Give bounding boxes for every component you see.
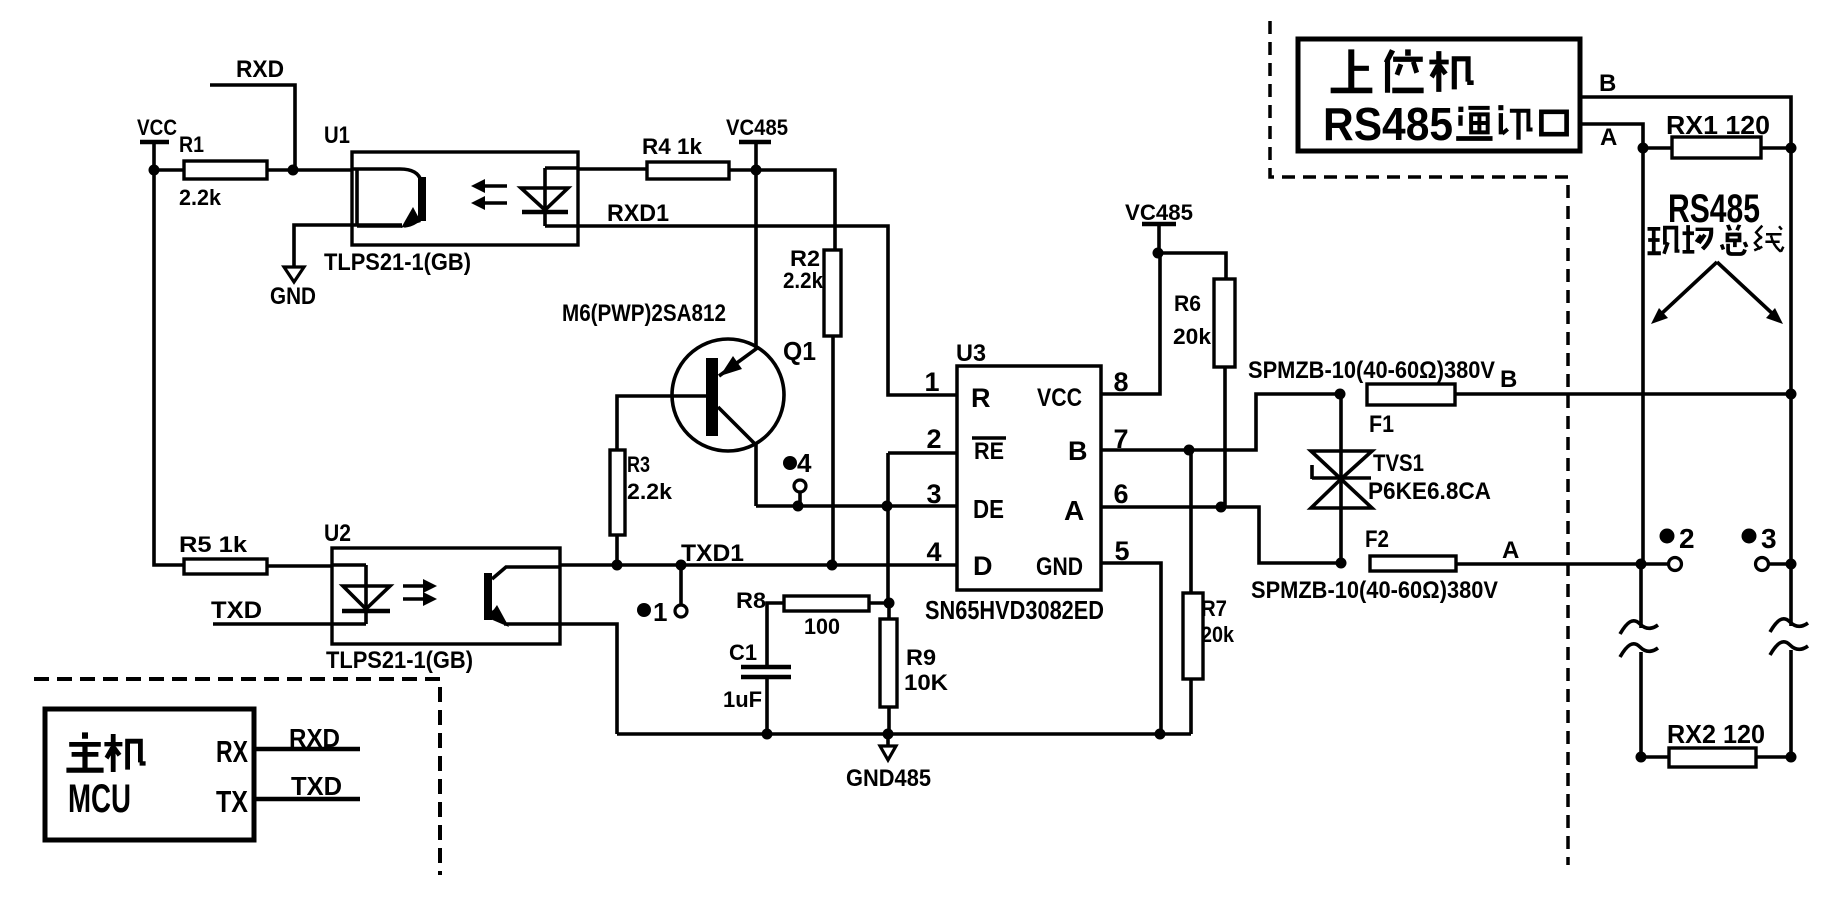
resistor R5 bbox=[179, 532, 267, 574]
diode TVS1 bbox=[1311, 394, 1491, 563]
dashed boundary host side bbox=[1270, 21, 1568, 865]
wire R5 to U2 bbox=[267, 564, 332, 568]
node R2/TXD1 junction bbox=[827, 560, 838, 571]
svg-text:B: B bbox=[1500, 366, 1517, 393]
resistor RX1 bbox=[1666, 110, 1770, 158]
wire host B out bbox=[1580, 70, 1791, 148]
node RX1 left junction bbox=[1638, 143, 1649, 154]
wire U3 pin8 to VC485 bbox=[1101, 253, 1160, 394]
svg-text:A: A bbox=[1600, 124, 1617, 151]
wire B rail to break bbox=[1789, 564, 1793, 626]
transistor Q1 bbox=[562, 170, 816, 506]
svg-text:C1: C1 bbox=[729, 640, 757, 665]
power symbol VCC bbox=[137, 115, 177, 170]
svg-text:100: 100 bbox=[804, 614, 840, 639]
svg-text:TLPS21-1(GB): TLPS21-1(GB) bbox=[324, 249, 471, 276]
node 1 terminal bbox=[637, 560, 687, 628]
svg-text:VC485: VC485 bbox=[726, 115, 788, 140]
svg-text:GND: GND bbox=[270, 283, 316, 310]
wire RX1 stubs bbox=[1643, 146, 1791, 150]
svg-text:R7: R7 bbox=[1201, 596, 1227, 621]
wire A rail to break bbox=[1639, 564, 1643, 628]
net label TXD1 and D wire bbox=[560, 540, 957, 567]
svg-text:B: B bbox=[1068, 436, 1088, 466]
svg-text:2.2k: 2.2k bbox=[627, 479, 673, 504]
svg-text:RXD1: RXD1 bbox=[607, 200, 669, 227]
bus direction arrows bbox=[1651, 262, 1783, 324]
svg-text:RE: RE bbox=[974, 438, 1004, 465]
resistor RX2 bbox=[1667, 719, 1765, 767]
wire R8 left to C1 bbox=[767, 603, 784, 667]
wire R8 right to R9 bbox=[869, 601, 889, 605]
svg-text:R6: R6 bbox=[1174, 291, 1201, 316]
svg-text:B: B bbox=[1599, 70, 1616, 97]
node RX2 right junction bbox=[1786, 752, 1797, 763]
svg-text:10K: 10K bbox=[904, 670, 948, 695]
svg-text:RXD: RXD bbox=[289, 723, 340, 753]
op-amp U1 optocoupler TLP521 bbox=[324, 122, 578, 276]
svg-text:R3: R3 bbox=[627, 452, 650, 477]
svg-text:U2: U2 bbox=[324, 520, 351, 547]
wire ground rail GND485 bbox=[617, 732, 1191, 736]
svg-text:TX: TX bbox=[216, 784, 248, 819]
net label RS485 fieldbus bbox=[1648, 187, 1783, 255]
wire R9 top stub bbox=[887, 603, 891, 619]
wire node to U1 pin bbox=[293, 168, 352, 172]
svg-text:DE: DE bbox=[973, 494, 1004, 524]
svg-text:F1: F1 bbox=[1369, 411, 1394, 438]
wire MCU TX pin bbox=[254, 771, 360, 801]
power symbol VC485 left bbox=[726, 115, 788, 170]
transistor U2 phototransistor bbox=[484, 567, 560, 627]
svg-text:M6(PWP)2SA812: M6(PWP)2SA812 bbox=[562, 300, 726, 327]
net label RXD bbox=[210, 56, 295, 170]
node R8/R9 junction bbox=[884, 598, 895, 609]
wire C1 to ground rail bbox=[765, 677, 769, 734]
op-amp U3 transceiver SN65HVD3082ED bbox=[925, 340, 1104, 625]
resistor R2 bbox=[783, 246, 841, 336]
svg-text:F2: F2 bbox=[1365, 526, 1389, 553]
svg-text:1: 1 bbox=[924, 367, 939, 397]
svg-text:Q1: Q1 bbox=[783, 336, 816, 366]
svg-text:R5 1k: R5 1k bbox=[179, 532, 248, 557]
svg-text:D: D bbox=[973, 551, 993, 581]
svg-text:2.2k: 2.2k bbox=[783, 268, 824, 293]
resistor R7 bbox=[1183, 593, 1235, 679]
diode U2 LED bbox=[332, 565, 390, 624]
wire R2 bottom to TXD1 line bbox=[831, 336, 835, 565]
node R3/TXD1 junction bbox=[612, 560, 623, 571]
node VC485 junction bbox=[751, 165, 762, 176]
svg-text:20k: 20k bbox=[1173, 324, 1212, 349]
wire U1 to R4 bbox=[578, 167, 647, 171]
svg-text:U1: U1 bbox=[324, 122, 350, 149]
svg-text:U3: U3 bbox=[956, 340, 986, 367]
resistor R4 bbox=[642, 134, 729, 179]
node C1/rail junction bbox=[762, 729, 773, 740]
resistor R3 bbox=[610, 450, 673, 535]
svg-text:VCC: VCC bbox=[1037, 384, 1082, 412]
svg-text:RXD: RXD bbox=[236, 56, 284, 83]
MCU box 主机 bbox=[45, 709, 254, 840]
node 4 terminal bbox=[783, 448, 812, 512]
resistor R6 bbox=[1173, 279, 1235, 367]
wire VCC to R1 bbox=[154, 168, 184, 172]
U1 light arrows bbox=[471, 179, 507, 210]
wire A rail down bbox=[1641, 148, 1645, 564]
resistor R9 bbox=[880, 619, 948, 707]
node terminal3 junction bbox=[1786, 559, 1797, 570]
wire R1 to node RXD bbox=[267, 168, 293, 172]
svg-text:2.2k: 2.2k bbox=[179, 185, 222, 210]
svg-text:SPMZB-10(40-60Ω)380V: SPMZB-10(40-60Ω)380V bbox=[1248, 357, 1495, 384]
svg-text:GND: GND bbox=[1036, 553, 1083, 581]
ground GND485 bbox=[846, 734, 931, 792]
node pin5/rail junction bbox=[1155, 729, 1166, 740]
wire U3 pin5 to rail bbox=[1101, 563, 1161, 734]
svg-text:RX2 120: RX2 120 bbox=[1667, 719, 1765, 749]
net label TXD bbox=[211, 597, 332, 624]
svg-text:2: 2 bbox=[1679, 523, 1695, 554]
node RXD junction bbox=[288, 165, 299, 176]
wire A rail to RX2 bbox=[1639, 652, 1643, 757]
wire F1 output B bbox=[1455, 366, 1791, 394]
svg-text:4: 4 bbox=[797, 448, 812, 478]
svg-text:TXD1: TXD1 bbox=[681, 540, 744, 567]
wire R9 bottom to rail bbox=[887, 707, 891, 734]
node F1/TVS junction bbox=[1335, 389, 1346, 400]
svg-text:3: 3 bbox=[926, 479, 941, 509]
wire B rail to RX2 bbox=[1789, 650, 1793, 757]
wire R4 to VC485 node bbox=[729, 168, 756, 172]
svg-text:R8: R8 bbox=[736, 588, 766, 613]
host box 上位机 RS485通讯口 bbox=[1298, 39, 1580, 151]
svg-text:SN65HVD3082ED: SN65HVD3082ED bbox=[925, 595, 1104, 625]
svg-text:20k: 20k bbox=[1201, 622, 1235, 647]
node terminal2 junction bbox=[1636, 559, 1647, 570]
wire F2 output A bbox=[1456, 537, 1641, 564]
node R9/rail junction bbox=[883, 729, 894, 740]
svg-text:TLPS21-1(GB): TLPS21-1(GB) bbox=[326, 647, 473, 674]
resistor R8 bbox=[736, 588, 869, 639]
wire VC485 to R6 bbox=[1158, 253, 1226, 279]
svg-text:A: A bbox=[1064, 495, 1084, 526]
svg-text:TVS1: TVS1 bbox=[1373, 450, 1424, 477]
node 3 terminal bbox=[1742, 394, 1792, 571]
wire RX2 stubs bbox=[1641, 755, 1791, 759]
svg-text:R4 1k: R4 1k bbox=[642, 134, 703, 159]
svg-text:2: 2 bbox=[926, 424, 941, 454]
wire MCU RX pin bbox=[254, 723, 360, 753]
svg-text:TXD: TXD bbox=[291, 771, 342, 801]
svg-text:R9: R9 bbox=[906, 645, 936, 670]
wire R3 bottom to TXD1 line bbox=[615, 535, 619, 565]
wire VCC rail down to R5 bbox=[154, 170, 184, 565]
svg-text:RS485: RS485 bbox=[1323, 98, 1453, 150]
svg-text:SPMZB-10(40-60Ω)380V: SPMZB-10(40-60Ω)380V bbox=[1251, 577, 1498, 604]
node F2/TVS junction bbox=[1336, 558, 1347, 569]
U2 light arrows bbox=[403, 579, 437, 606]
svg-text:MCU: MCU bbox=[68, 777, 131, 821]
svg-text:VCC: VCC bbox=[137, 115, 177, 140]
svg-text:3: 3 bbox=[1761, 523, 1777, 554]
power symbol VC485 right bbox=[1125, 200, 1193, 253]
svg-text:RX1 120: RX1 120 bbox=[1666, 110, 1770, 140]
wire RXD1 from U1 to U3 pin1 bbox=[578, 226, 957, 395]
diode U1 LED bbox=[521, 168, 578, 226]
node R6/A junction bbox=[1216, 502, 1227, 513]
wire U1 emitter to GND bbox=[294, 225, 402, 267]
svg-text:A: A bbox=[1502, 537, 1519, 564]
svg-text:4: 4 bbox=[926, 537, 941, 567]
break symbol A rail bbox=[1620, 621, 1658, 657]
svg-text:6: 6 bbox=[1113, 479, 1128, 509]
node RX1 right junction bbox=[1786, 143, 1797, 154]
svg-text:TXD: TXD bbox=[211, 597, 262, 624]
resistor R1 bbox=[179, 132, 267, 210]
wire U3 pin7 B line bbox=[1101, 394, 1339, 450]
fuse F2 bbox=[1251, 526, 1498, 604]
svg-text:VC485: VC485 bbox=[1125, 200, 1193, 225]
node VCC junction bbox=[149, 165, 160, 176]
op-amp U2 optocoupler TLP521 bbox=[324, 520, 560, 674]
node RX2 left junction bbox=[1636, 752, 1647, 763]
wire VC485 node to R2 top bbox=[756, 170, 835, 250]
ground GND bbox=[270, 267, 316, 310]
capacitor C1 bbox=[723, 640, 791, 712]
node B rail junction bbox=[1786, 389, 1797, 400]
wire Q1 base bbox=[617, 396, 706, 450]
fuse F1 bbox=[1248, 357, 1495, 438]
svg-text:1: 1 bbox=[653, 597, 667, 627]
svg-text:R1: R1 bbox=[179, 132, 204, 157]
svg-text:GND485: GND485 bbox=[846, 765, 931, 792]
wire host A out bbox=[1580, 124, 1643, 151]
dashed boundary MCU side bbox=[34, 679, 440, 875]
wire RE-DE tie and DE to R8/R9 bbox=[886, 453, 890, 603]
U3 pin name RE with overline bbox=[972, 438, 1006, 465]
svg-text:RS485: RS485 bbox=[1668, 187, 1760, 231]
wire U3 pin6 A line bbox=[1101, 507, 1341, 563]
node VC485 right junction bbox=[1153, 248, 1164, 259]
node DE junction bbox=[882, 501, 893, 512]
svg-text:RX: RX bbox=[216, 734, 248, 769]
wire R6 bottom to A line bbox=[1223, 367, 1227, 507]
node R7/B junction bbox=[1184, 445, 1195, 456]
wire R7 bottom to rail bbox=[1189, 679, 1193, 734]
break symbol B rail bbox=[1770, 619, 1808, 655]
wire DE line Q1 collector to U3 pin3 bbox=[756, 504, 957, 508]
wire B rail down bbox=[1789, 148, 1793, 394]
wire R7 top bbox=[1189, 450, 1193, 593]
svg-text:1uF: 1uF bbox=[723, 687, 762, 712]
node 2 terminal bbox=[1641, 523, 1695, 571]
svg-text:P6KE6.8CA: P6KE6.8CA bbox=[1368, 478, 1491, 505]
svg-text:R: R bbox=[971, 383, 991, 413]
wire U3 pin2 bbox=[888, 451, 957, 455]
wire U2 emitter down to ground rail bbox=[560, 624, 617, 734]
transistor U1 phototransistor bbox=[352, 168, 426, 228]
